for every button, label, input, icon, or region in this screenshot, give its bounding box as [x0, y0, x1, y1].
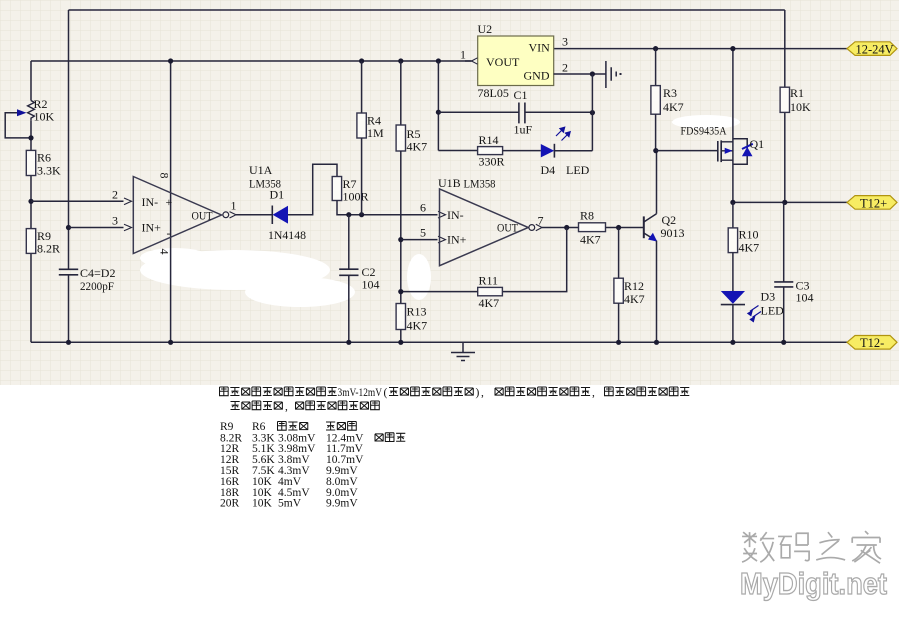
resistor R8 [579, 223, 606, 232]
wire pin5 of U1B [398, 237, 403, 242]
op-amp U1B [440, 189, 529, 266]
svg-text:1M: 1M [367, 126, 384, 140]
svg-text:9013: 9013 [661, 226, 685, 240]
wire VOUT net vertical x438.4 [436, 58, 441, 63]
svg-text:R8: R8 [580, 209, 594, 223]
svg-text:6: 6 [420, 201, 426, 215]
resistor R4 [359, 58, 364, 63]
capacitor C1 [438, 111, 592, 113]
svg-text:R14: R14 [479, 133, 499, 147]
svg-text:C4=D2: C4=D2 [80, 266, 115, 280]
schematic grid background [0, 0, 899, 385]
svg-text:Q1: Q1 [750, 137, 765, 151]
svg-text:R1: R1 [790, 86, 804, 100]
resistor R6 [26, 150, 35, 175]
wire R8 to Q2 base [606, 227, 644, 229]
resistor R1 [780, 87, 789, 112]
svg-text:GND: GND [524, 69, 550, 83]
note line 2 [231, 401, 380, 413]
svg-text:104: 104 [362, 278, 380, 292]
resistance table [220, 421, 405, 510]
wire pin2 of U1A [31, 200, 124, 202]
wire pin3 of U1A [69, 227, 124, 229]
svg-text:5: 5 [420, 226, 426, 240]
svg-text:IN+: IN+ [142, 221, 162, 235]
wire right R1 branch vertical x784.8 [784, 10, 786, 202]
svg-text:1: 1 [231, 199, 237, 213]
svg-text:4: 4 [158, 249, 172, 255]
node pin3 tap on x68.5 [66, 225, 71, 230]
wire U1A out [236, 214, 272, 216]
svg-text:): ) [476, 387, 480, 399]
svg-text:7: 7 [538, 214, 544, 228]
svg-text:10K: 10K [252, 498, 273, 510]
svg-text:4K7: 4K7 [407, 319, 428, 333]
svg-text:D3: D3 [761, 290, 776, 304]
R2 wiper wire and arrow [5, 113, 31, 138]
resistor R13 [396, 304, 405, 330]
svg-text:,: , [481, 387, 484, 399]
wire left C4 branch vertical x68.5 [68, 10, 70, 342]
note line 1 [220, 387, 690, 399]
svg-text:1: 1 [460, 48, 466, 62]
wire U1B out [542, 227, 579, 229]
svg-text:VIN: VIN [529, 41, 551, 55]
resistor R11 [478, 287, 503, 295]
watermark hanzi 数码之家 [742, 531, 881, 563]
wire T12+ rail [733, 201, 847, 203]
node gate junction [653, 148, 658, 153]
svg-text:MyDigit.net: MyDigit.net [740, 566, 887, 601]
resistor R14 [438, 150, 477, 152]
ground symbol bottom [451, 342, 475, 360]
svg-text:D4: D4 [541, 163, 556, 177]
svg-text:D1: D1 [270, 188, 285, 202]
pin 7 bubble of U1B [529, 225, 535, 231]
wire left rail x31 [30, 61, 32, 342]
svg-text:IN-: IN- [142, 195, 159, 209]
svg-text:100R: 100R [343, 190, 369, 204]
svg-text:3mV-12mV: 3mV-12mV [338, 387, 383, 399]
port T12- [847, 336, 897, 350]
wire R7 bottom to U1B pin6 [337, 201, 438, 215]
svg-text:LM358: LM358 [464, 177, 496, 191]
svg-text:U1B: U1B [438, 176, 461, 190]
white smudge erasures [140, 115, 740, 307]
svg-text:T12+: T12+ [860, 196, 887, 210]
svg-text:R9: R9 [220, 421, 234, 433]
svg-text:8.2R: 8.2R [37, 242, 60, 256]
svg-text:FDS9435A: FDS9435A [681, 124, 727, 138]
svg-text:Q2: Q2 [662, 213, 677, 227]
svg-text:330R: 330R [479, 155, 505, 169]
node R2-R6 junction [28, 135, 33, 140]
svg-text:9.9mV: 9.9mV [326, 498, 358, 510]
power ground sideways [606, 61, 616, 88]
svg-text:R11: R11 [479, 274, 499, 288]
svg-text:78L05: 78L05 [478, 86, 509, 100]
wire U1A power vertical x170.6 [170, 61, 172, 342]
svg-text:4K7: 4K7 [624, 292, 645, 306]
wire top border horizontal [69, 9, 785, 11]
svg-text:12-24V: 12-24V [856, 43, 894, 57]
svg-text:2200pF: 2200pF [80, 279, 114, 293]
wire 12-24V rail y48.6 [554, 48, 847, 50]
svg-text:2: 2 [112, 188, 118, 202]
regulator U2 78L05 [478, 36, 554, 86]
svg-text:(: ( [384, 387, 388, 399]
svg-text:LED: LED [761, 304, 785, 318]
svg-text:R13: R13 [407, 305, 427, 319]
port 12-24V [847, 42, 897, 56]
resistor R12 [618, 228, 620, 279]
potentiometer R2 zigzag [28, 101, 35, 121]
svg-text:104: 104 [796, 291, 814, 305]
wire VCC rail y61 [31, 60, 472, 62]
svg-text:T12-: T12- [860, 336, 884, 350]
svg-text:4K7: 4K7 [479, 296, 500, 310]
resistor R10 [732, 202, 734, 228]
resistor R3 [653, 46, 658, 51]
svg-text:5mV: 5mV [278, 498, 302, 510]
svg-text:10K: 10K [790, 100, 811, 114]
svg-text:R6: R6 [252, 421, 266, 433]
svg-text:3.3K: 3.3K [37, 164, 61, 178]
svg-text:IN-: IN- [447, 208, 464, 222]
wire bottom rail y342.3 [31, 341, 847, 343]
wire pin2 GND [554, 73, 606, 75]
svg-text:8: 8 [158, 173, 172, 179]
wire gate [656, 150, 718, 152]
resistor R7 [332, 177, 341, 201]
svg-text:3: 3 [112, 214, 118, 228]
svg-text:IN+: IN+ [447, 233, 467, 247]
transistor Q2 9013 [643, 216, 645, 238]
svg-text:,: , [592, 387, 595, 399]
svg-text:U1A: U1A [249, 163, 273, 177]
svg-text:LED: LED [566, 163, 590, 177]
wire feedback to R11 [502, 228, 566, 292]
diode D1 1N4148 [271, 206, 273, 225]
capacitor C3 [783, 202, 785, 341]
svg-text:4K7: 4K7 [739, 241, 760, 255]
svg-text:+: + [166, 195, 173, 209]
LED D4 [503, 150, 541, 152]
svg-text:20R: 20R [220, 498, 240, 510]
svg-text:R12: R12 [624, 279, 644, 293]
node pin2 tap [28, 199, 33, 204]
svg-text:10K: 10K [34, 110, 55, 124]
svg-text:4K7: 4K7 [663, 100, 684, 114]
pin 1 chevron [472, 58, 478, 64]
svg-text:1N4148: 1N4148 [268, 228, 306, 242]
svg-text:-: - [167, 226, 171, 240]
svg-text:OUT: OUT [497, 221, 519, 235]
svg-text:4K7: 4K7 [407, 140, 428, 154]
resistor R5 [398, 58, 403, 63]
resistor R9 [26, 229, 35, 254]
svg-text:R3: R3 [663, 86, 677, 100]
svg-text:C1: C1 [514, 88, 528, 102]
svg-text:VOUT: VOUT [486, 55, 520, 69]
svg-text:OUT: OUT [192, 209, 214, 223]
svg-text:,: , [285, 401, 288, 413]
pin 1 bubble of U1A [223, 212, 229, 218]
svg-text:2: 2 [562, 61, 568, 75]
junction dots bottom rail [66, 340, 71, 345]
LED D3 [721, 291, 745, 304]
mosfet Q1 FDS9435A [717, 141, 719, 162]
svg-text:U2: U2 [478, 22, 493, 36]
svg-text:1uF: 1uF [514, 123, 533, 137]
op-amp U1A [133, 177, 221, 254]
capacitor C4 [59, 269, 78, 275]
svg-text:R10: R10 [739, 228, 759, 242]
wire D1 to R7 up-over [288, 164, 337, 214]
svg-text:3: 3 [562, 35, 568, 49]
svg-text:R6: R6 [37, 151, 51, 165]
port T12+ [847, 196, 897, 210]
svg-text:4K7: 4K7 [580, 233, 601, 247]
capacitor C2 [348, 215, 350, 343]
